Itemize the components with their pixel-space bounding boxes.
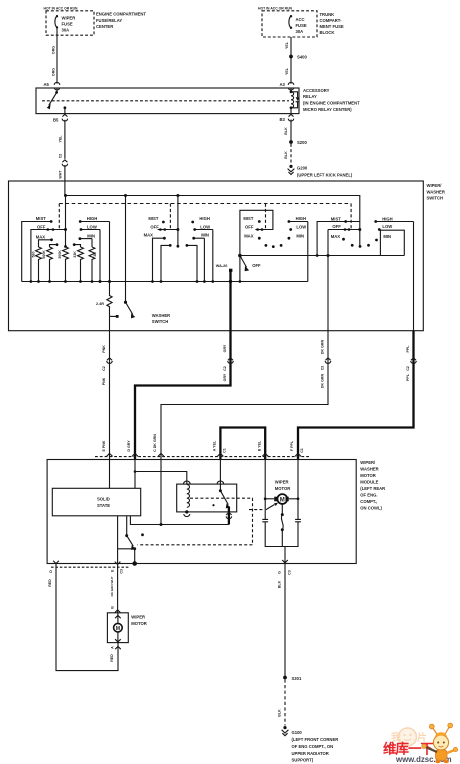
bank4 MIN contact	[375, 239, 378, 242]
resistor 3K	[89, 247, 95, 282]
svg-text:C2: C2	[320, 366, 324, 371]
bank4 HIGH wire / PPL drop	[376, 221, 414, 223]
park switch pivot	[126, 516, 128, 536]
svg-text:D GRY: D GRY	[127, 440, 131, 452]
bank3 rotor contacts	[265, 244, 268, 247]
motor feed rail	[130, 516, 229, 525]
svg-text:FUSE: FUSE	[296, 23, 307, 28]
svg-text:S400: S400	[297, 55, 307, 60]
svg-text:HOT IN ACC OR RUN: HOT IN ACC OR RUN	[258, 6, 292, 10]
svg-text:SUPPORT): SUPPORT)	[292, 758, 314, 763]
relay coil (right)	[290, 88, 294, 114]
engine compartment fuse/relay center box (dashed)	[46, 11, 94, 35]
motor suppression connectors	[262, 519, 268, 521]
resistor bus	[22, 281, 308, 283]
svg-text:30A: 30A	[62, 27, 70, 32]
svg-text:560K: 560K	[42, 250, 46, 259]
dashed drop bank1	[58, 204, 60, 230]
svg-text:(LEFT REAR: (LEFT REAR	[360, 486, 385, 491]
dashed drop bank3	[265, 204, 267, 229]
svg-text:MAX: MAX	[36, 234, 46, 239]
bank1 feed to resistors	[65, 196, 67, 247]
svg-text:COMPART-: COMPART-	[320, 18, 343, 23]
terminal F PPL	[295, 453, 301, 456]
washer switch blade	[126, 302, 133, 314]
svg-text:A YEL: A YEL	[213, 440, 217, 451]
svg-text:B5: B5	[53, 118, 59, 123]
svg-text:HIGH: HIGH	[296, 216, 306, 221]
wiper/washer motor module box	[47, 460, 356, 564]
bank2 MIST contact	[162, 221, 165, 224]
relay switch contact (left)	[47, 88, 67, 114]
svg-text:WIPER: WIPER	[62, 15, 76, 20]
svg-text:MIST: MIST	[148, 216, 158, 221]
svg-text:TRUNK: TRUNK	[320, 12, 335, 17]
bank4 LOW wire and wash contact plate	[379, 230, 404, 256]
bank2 right elbow contact	[187, 245, 197, 281]
svg-text:S200: S200	[297, 140, 307, 145]
svg-text:A3: A3	[280, 82, 286, 87]
svg-text:OF ENG.: OF ENG.	[360, 492, 377, 497]
bank2 LOW wire	[195, 229, 213, 231]
splice S200	[289, 140, 293, 144]
wire RED module D to washer motor A	[56, 564, 118, 671]
svg-text:FUSE: FUSE	[62, 21, 73, 26]
svg-text:2.4R: 2.4R	[96, 302, 104, 306]
wire YEL relay B5 down	[64, 120, 66, 159]
bank2 feed	[177, 196, 179, 247]
svg-text:OFF: OFF	[332, 224, 341, 229]
bank2 OFF wire	[159, 229, 178, 231]
svg-text:DK GRN: DK GRN	[320, 374, 324, 389]
svg-text:BLK: BLK	[284, 151, 288, 159]
dashed control links	[138, 498, 253, 545]
svg-text:MIST: MIST	[243, 216, 253, 221]
svg-text:C2: C2	[102, 366, 106, 371]
svg-text:MIST: MIST	[331, 216, 341, 221]
svg-text:A: A	[111, 646, 115, 649]
bank3 wiper blade OFF	[240, 256, 247, 268]
svg-text:PNK: PNK	[102, 345, 106, 353]
wire D to solid state and relay coil	[134, 460, 136, 489]
svg-text:WIPER/: WIPER/	[427, 183, 443, 188]
washer motor	[107, 613, 128, 643]
wire YEL fuse to splice S400	[290, 37, 292, 55]
svg-text:LOW: LOW	[382, 224, 392, 229]
svg-text:ORG: ORG	[52, 68, 56, 76]
bank1 MIN wire	[80, 238, 92, 240]
svg-text:RED: RED	[110, 654, 114, 662]
svg-text:PPL: PPL	[406, 345, 410, 353]
svg-text:(IN ENGINE COMPARTMENT: (IN ENGINE COMPARTMENT	[303, 101, 360, 106]
svg-text:MICRO RELAY CENTER): MICRO RELAY CENTER)	[303, 107, 352, 112]
svg-text:HOT IN ACC OR RUN: HOT IN ACC OR RUN	[44, 6, 78, 10]
svg-text:PNK: PNK	[102, 377, 106, 385]
accessory relay box	[36, 88, 299, 114]
svg-text:560: 560	[31, 252, 35, 258]
wire BLK splice to ground (dashed)	[284, 679, 286, 725]
svg-text:ENGINE COMPARTMENT: ENGINE COMPARTMENT	[96, 11, 146, 16]
terminal A YEL	[217, 453, 223, 456]
svg-text:RELAY: RELAY	[303, 94, 317, 99]
wire B YEL to motor	[264, 460, 266, 520]
park switch output	[133, 547, 136, 550]
svg-text:OF ENG COMPT., ON: OF ENG COMPT., ON	[292, 744, 334, 749]
wire BLK B3 to splice S200	[290, 120, 292, 141]
svg-text:WIPER/: WIPER/	[360, 460, 376, 465]
park switch run contact	[141, 533, 144, 536]
ground G100	[282, 726, 289, 736]
svg-text:GRY: GRY	[223, 373, 227, 381]
wiper fuse 30A	[55, 15, 75, 32]
wire GRY inside box	[229, 270, 231, 330]
svg-text:LOW: LOW	[87, 224, 97, 229]
svg-text:YEL: YEL	[285, 41, 289, 49]
wire BLK module G to splice	[284, 564, 286, 677]
svg-text:OFF: OFF	[37, 224, 46, 229]
svg-text:WASHER: WASHER	[360, 466, 378, 471]
svg-text:PPL: PPL	[406, 373, 410, 381]
bank3 MAX contact	[258, 237, 261, 240]
svg-text:UPPER RADIATOR: UPPER RADIATOR	[292, 751, 329, 756]
svg-text:G100: G100	[292, 730, 303, 735]
wire YEL splice to relay A3	[290, 58, 292, 84]
module connector C3 row	[51, 566, 130, 568]
svg-text:33K: 33K	[73, 251, 77, 258]
svg-text:DK GRN: DK GRN	[320, 340, 324, 355]
motor ground lead	[284, 547, 286, 564]
svg-text:HIGH: HIGH	[87, 216, 97, 221]
svg-text:CENTER: CENTER	[96, 24, 113, 29]
svg-text:MIN: MIN	[201, 233, 209, 238]
resistor 300K	[63, 247, 69, 282]
dashed drop bank4	[350, 204, 352, 230]
bank4 feed	[359, 230, 361, 247]
svg-text:S301: S301	[292, 676, 302, 681]
trunk compartment fuse block box (dashed)	[262, 11, 317, 37]
resistor 560K	[47, 247, 53, 282]
wire PNK switch to module E	[109, 331, 111, 460]
wire PPL switch to module F	[298, 331, 414, 460]
wire GRY switch to module D	[135, 331, 231, 460]
terminal E PNK	[107, 453, 113, 456]
svg-text:C1: C1	[300, 448, 304, 453]
terminal C DK GRN	[158, 453, 164, 456]
svg-text:C DK GRN: C DK GRN	[153, 434, 157, 452]
svg-text:ACCESSORY: ACCESSORY	[303, 88, 330, 93]
svg-text:MIN: MIN	[383, 234, 391, 239]
bank1 OFF wire	[31, 230, 66, 282]
bank2 MIN wire	[194, 237, 205, 239]
svg-text:FUSE/RELAY: FUSE/RELAY	[96, 18, 122, 23]
dashed drop bank2	[169, 204, 171, 230]
svg-text:MAX: MAX	[244, 234, 254, 239]
wire A YEL to relay contact	[219, 460, 221, 491]
svg-text:M: M	[280, 497, 285, 503]
acc fuse 10A	[289, 15, 307, 34]
splice S400	[289, 55, 293, 59]
solid state box	[52, 488, 140, 516]
svg-text:WA-26: WA-26	[216, 264, 228, 268]
svg-text:MODULE: MODULE	[360, 479, 378, 484]
svg-text:G: G	[278, 571, 282, 574]
svg-text:WASHER: WASHER	[152, 313, 170, 318]
bank4 MIST wire	[317, 222, 360, 256]
svg-text:COMPT.,: COMPT.,	[360, 499, 377, 504]
terminal B YEL	[262, 453, 268, 456]
svg-text:WHT: WHT	[59, 170, 63, 179]
svg-text:MAX: MAX	[331, 234, 341, 239]
svg-text:OFF: OFF	[245, 224, 254, 229]
bank2 MAX wire	[153, 238, 165, 281]
svg-text:G200: G200	[297, 166, 308, 171]
ground G200	[288, 165, 295, 175]
wire WHT connector to wiper/washer switch	[64, 165, 66, 196]
svg-text:C3: C3	[120, 569, 124, 574]
svg-text:C1: C1	[223, 448, 227, 453]
module relay box	[177, 484, 237, 512]
svg-text:(LEFT FRONT CORNER: (LEFT FRONT CORNER	[292, 737, 339, 742]
washer feed resistor 2.4R	[107, 282, 112, 317]
svg-text:C2: C2	[406, 366, 410, 371]
module relay switch	[219, 489, 222, 492]
splice S301	[283, 676, 287, 680]
resistor 560	[36, 247, 42, 282]
svg-text:LOW: LOW	[200, 224, 210, 229]
svg-text:C2: C2	[223, 366, 227, 371]
resistor 33K	[78, 247, 84, 282]
svg-text:GRY: GRY	[223, 344, 227, 352]
motor park linkage	[281, 504, 283, 515]
wire E to solid state	[109, 460, 111, 489]
washer switch pivot wire	[125, 196, 127, 303]
svg-text:OFF: OFF	[150, 224, 159, 229]
svg-text:WASHER: WASHER	[427, 189, 445, 194]
svg-text:C2: C2	[59, 154, 63, 159]
park switch blade	[127, 536, 134, 547]
site watermark stamp (decorative)	[391, 728, 427, 746]
svg-text:MIN: MIN	[296, 234, 304, 239]
svg-text:SWITCH: SWITCH	[427, 196, 444, 201]
svg-text:B YEL: B YEL	[257, 440, 261, 451]
svg-text:WIPER: WIPER	[131, 615, 145, 620]
wire C to motor feed rail	[160, 460, 162, 525]
svg-text:DK GRN WHT: DK GRN WHT	[110, 576, 114, 596]
bank4 OFF wire / DK GRN drop	[328, 229, 360, 231]
bank2 left elbow contact	[161, 245, 170, 281]
washer switch fixed contact	[110, 315, 117, 317]
bank1 MIST wire	[22, 222, 51, 282]
svg-text:B3: B3	[280, 117, 286, 122]
bank1 MAX wire	[39, 240, 52, 247]
bank3 HIGH wire	[289, 221, 308, 223]
wire F PPL to motor	[297, 460, 299, 520]
wire YEL jumper module A to B	[220, 428, 265, 460]
bank4 rotor contacts	[351, 244, 354, 247]
svg-text:SWITCH: SWITCH	[152, 319, 169, 324]
bank3 OFF contacts	[255, 229, 263, 231]
wiper switch output contact	[229, 269, 232, 272]
svg-text:30A: 30A	[296, 29, 304, 34]
wire BLK splice to ground (dashed)	[290, 144, 292, 165]
svg-text:HIGH: HIGH	[382, 216, 392, 221]
svg-text:D: D	[49, 570, 53, 573]
svg-text:STATE: STATE	[97, 503, 110, 508]
svg-text:MOTOR: MOTOR	[275, 486, 291, 491]
svg-text:MAX: MAX	[144, 233, 154, 238]
relay clamping diode	[291, 92, 300, 108]
svg-text:MOTOR: MOTOR	[131, 621, 147, 626]
svg-text:BLK: BLK	[278, 709, 282, 717]
dashed delay bus	[59, 203, 351, 205]
bank1 LOW wire	[81, 229, 100, 231]
bank2 HIGH contact	[191, 221, 194, 224]
svg-text:YEL: YEL	[59, 135, 63, 143]
svg-text:BLK: BLK	[278, 580, 282, 588]
bank3 MIST contact	[258, 220, 261, 223]
wiper/washer switch box	[9, 181, 424, 331]
svg-text:F PPL: F PPL	[290, 440, 294, 451]
module relay coil	[187, 485, 190, 508]
bank3 wiper pivot and common rail	[238, 254, 242, 258]
wire DK GRN WHT module E to washer motor B	[117, 564, 119, 613]
svg-text:C3: C3	[287, 570, 291, 575]
svg-text:WIPER: WIPER	[275, 479, 289, 484]
svg-text:BLOCK: BLOCK	[320, 30, 335, 35]
svg-text:ON COWL): ON COWL)	[360, 505, 382, 510]
svg-text:MOTOR: MOTOR	[360, 473, 376, 478]
terminal B3	[289, 114, 294, 116]
mascot	[422, 723, 458, 763]
svg-text:OFF: OFF	[252, 263, 261, 268]
svg-text:MIN: MIN	[87, 234, 95, 239]
svg-text:YEL: YEL	[285, 67, 289, 75]
svg-text:A5: A5	[44, 82, 50, 87]
wire PNK inside box	[109, 316, 111, 330]
washer output wire	[117, 516, 119, 564]
inline connector C2	[62, 160, 67, 162]
svg-text:ORG: ORG	[52, 46, 56, 54]
svg-text:BLK: BLK	[284, 127, 288, 135]
svg-text:ACC: ACC	[296, 17, 305, 22]
wire DK GRN switch to module C	[161, 331, 328, 460]
svg-text:MIST: MIST	[36, 216, 46, 221]
svg-text:3K: 3K	[93, 252, 97, 257]
module connector C1 row	[95, 456, 310, 458]
svg-text:MENT FUSE: MENT FUSE	[320, 24, 344, 29]
feed bus wire	[66, 196, 360, 230]
bank3 frame wire	[240, 210, 273, 281]
terminal D GRY	[132, 453, 138, 456]
svg-text:M: M	[116, 626, 120, 632]
bank3 MIN contact	[288, 237, 291, 240]
terminal B5	[62, 114, 67, 116]
svg-text:LOW: LOW	[296, 224, 306, 229]
bank3 LOW contact	[289, 228, 292, 231]
svg-text:RED: RED	[48, 579, 52, 587]
wire ORG fuse to relay A5	[56, 27, 58, 83]
svg-text:(UPPER LEFT KICK PANEL): (UPPER LEFT KICK PANEL)	[297, 173, 353, 178]
bank4 MAX contact	[342, 238, 345, 241]
svg-text:B: B	[110, 606, 114, 609]
svg-text:HIGH: HIGH	[199, 216, 209, 221]
bank1 HIGH wire	[80, 221, 109, 223]
svg-text:E PNK: E PNK	[102, 440, 106, 451]
svg-text:300K: 300K	[58, 250, 62, 259]
svg-text:SOLID: SOLID	[97, 497, 110, 502]
